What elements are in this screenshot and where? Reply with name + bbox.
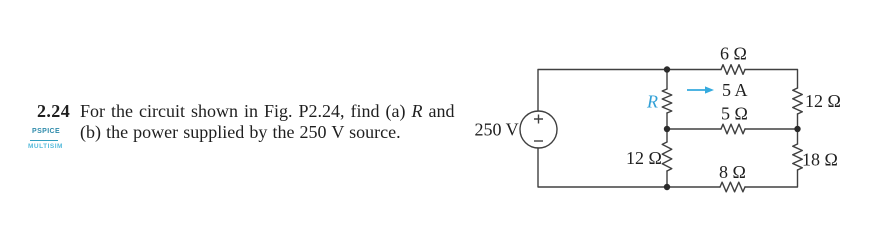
svg-text:18 Ω: 18 Ω (802, 150, 838, 170)
resistor 12 ohm middle branch (662, 142, 672, 171)
problem number 2.24 (37, 101, 70, 122)
svg-text:250 V: 250 V (475, 120, 519, 140)
wire between R and 12 ohm middle (666, 113, 668, 142)
minus sign of source (534, 140, 543, 142)
junction node top of R branch (664, 66, 670, 72)
wire bottom-right corner (745, 170, 798, 187)
PSPICE label (32, 128, 60, 135)
middle horizontal wire left segment (667, 128, 721, 130)
resistor 8 ohm (bottom wire) (720, 182, 745, 192)
svg-text:R: R (646, 92, 658, 112)
MULTISIM label (28, 143, 63, 150)
junction node middle-right (794, 126, 800, 132)
resistor 12 ohm right top (793, 88, 803, 114)
svg-text:5 Ω: 5 Ω (721, 104, 748, 124)
svg-text:5 A: 5 A (722, 80, 748, 100)
plus sign of source (534, 115, 543, 142)
problem text line 2 (80, 122, 401, 143)
resistor 18 ohm right bottom (793, 144, 803, 170)
wire 12 ohm middle to bottom (666, 171, 668, 187)
current arrow 5 A (687, 86, 714, 93)
resistor 6 ohm (top wire) (721, 65, 745, 75)
voltage source 250 V circle (520, 111, 557, 148)
middle branch upper wire (666, 70, 668, 90)
middle horizontal wire right segment (745, 128, 798, 130)
rule under PSPICE (30, 140, 58, 141)
junction node bottom of middle branch (664, 184, 670, 190)
problem text line 1 (80, 101, 454, 122)
resistor 5 ohm (middle wire) (721, 124, 745, 134)
wire bottom-left from 8 ohm to source (538, 148, 720, 187)
wire right middle segment (797, 114, 799, 144)
resistor R (middle branch) (662, 89, 672, 113)
svg-text:12 Ω: 12 Ω (626, 148, 662, 168)
wire top-right segment (745, 70, 798, 89)
junction node middle-left (664, 126, 670, 132)
svg-text:8 Ω: 8 Ω (719, 162, 746, 182)
svg-text:12 Ω: 12 Ω (805, 91, 841, 111)
wire top-left from source to top wire (538, 70, 721, 112)
svg-text:6 Ω: 6 Ω (720, 44, 747, 64)
